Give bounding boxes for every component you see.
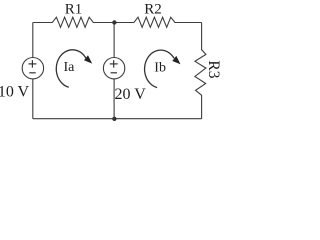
svg-text:R2: R2	[144, 1, 162, 17]
svg-text:R3: R3	[205, 60, 222, 78]
svg-text:20 V: 20 V	[115, 86, 147, 103]
svg-text:10 V: 10 V	[0, 84, 30, 101]
svg-text:R1: R1	[65, 1, 83, 17]
svg-text:Ia: Ia	[64, 60, 76, 75]
svg-text:Ib: Ib	[154, 61, 166, 76]
